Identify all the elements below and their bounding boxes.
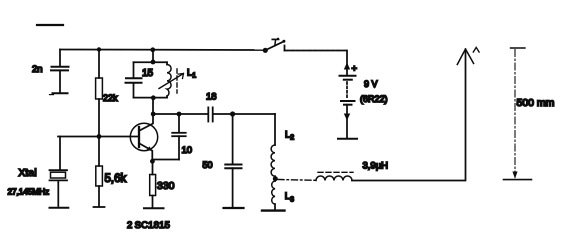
resistor R 330	[150, 161, 156, 207]
node emitter junction	[150, 159, 155, 164]
wire top supply rail	[60, 49, 265, 52]
node L2/L3 tap	[273, 176, 278, 181]
node base junction	[97, 134, 102, 139]
inductor L1 (variable)	[159, 62, 184, 97]
capacitor C 10 (feedback)	[153, 114, 186, 160]
inductor 3,9uH	[316, 172, 353, 180]
ground (under 5,6k)	[94, 206, 105, 208]
svg-text:500 mm: 500 mm	[517, 97, 555, 109]
switch (push button)	[263, 38, 286, 53]
ground (under 330)	[144, 207, 164, 209]
svg-text:330: 330	[157, 180, 175, 192]
ground (under crystal)	[50, 207, 70, 209]
wire switch to battery (dotted in scan)	[284, 46, 286, 51]
resistor R 5,6k	[96, 137, 103, 207]
svg-text:(6R22): (6R22)	[360, 94, 388, 104]
wire tap to antenna coil (dash-dot)	[278, 179, 316, 182]
battery 9V (6R22)	[338, 51, 357, 139]
node tank top	[151, 60, 156, 65]
wire rail to tank	[152, 50, 154, 63]
tank loop wires	[134, 62, 168, 97]
wire base	[58, 136, 139, 138]
arrow through L1	[159, 74, 183, 89]
svg-text:15: 15	[142, 68, 154, 79]
crystal Xtal 27,145MHz	[50, 137, 68, 207]
label antenna caret	[473, 47, 479, 52]
svg-text:18: 18	[206, 92, 217, 103]
inductor L2	[271, 114, 275, 179]
title dash	[37, 24, 63, 26]
node tank bottom	[151, 95, 156, 100]
svg-text:L1: L1	[187, 68, 196, 80]
node cap10 tap	[177, 112, 182, 117]
capacitor C 50	[225, 114, 241, 207]
capacitor C 15	[126, 78, 142, 83]
svg-text:L2: L2	[285, 130, 294, 142]
svg-text:L3: L3	[285, 191, 294, 203]
antenna arrow	[457, 49, 473, 65]
capacitor C 2n	[51, 50, 69, 93]
wire middle (collector output)	[153, 113, 208, 115]
ground (under 50)	[224, 207, 244, 209]
svg-text:27,145MHz: 27,145MHz	[8, 187, 50, 197]
inductor L3	[272, 179, 275, 210]
svg-text:Xtal: Xtal	[19, 168, 37, 179]
svg-text:9 V: 9 V	[364, 79, 378, 89]
svg-text:22k: 22k	[103, 93, 118, 103]
ground (under 2n)	[50, 93, 68, 94]
svg-text:2 SC1815: 2 SC1815	[127, 220, 170, 231]
svg-text:+: +	[352, 64, 358, 75]
ground (under L3)	[262, 209, 285, 211]
svg-text:3,9µH: 3,9µH	[363, 161, 389, 172]
core dashed	[318, 171, 353, 173]
node collector	[151, 112, 156, 117]
node rail/22k junction	[97, 47, 101, 51]
transistor Q1 2SC1815	[130, 114, 157, 162]
core dashed	[176, 69, 178, 93]
resistor R 22k	[96, 50, 103, 137]
svg-text:10: 10	[182, 145, 193, 156]
node cap18/cap50 junction	[230, 111, 235, 116]
wire tank bottom to collector node	[152, 98, 154, 114]
node rail/tank junction	[150, 47, 155, 52]
wire coil to antenna	[352, 50, 466, 181]
capacitor C 18	[208, 107, 212, 121]
dimension 500 mm	[504, 48, 532, 180]
svg-text:5,6k: 5,6k	[105, 173, 127, 185]
svg-text:50: 50	[203, 160, 213, 170]
svg-text:2n: 2n	[32, 64, 43, 75]
